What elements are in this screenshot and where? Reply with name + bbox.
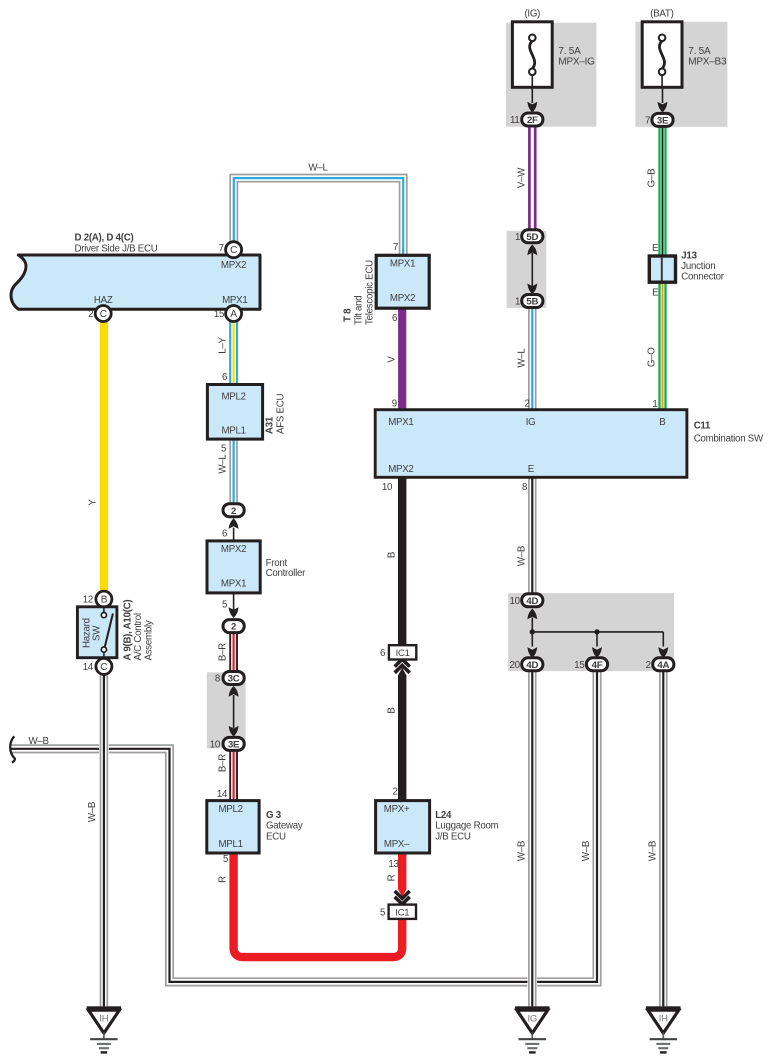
- svg-text:2: 2: [231, 506, 236, 517]
- svg-text:SW: SW: [91, 625, 102, 641]
- svg-text:(BAT): (BAT): [650, 8, 673, 19]
- svg-text:Telescopic ECU: Telescopic ECU: [365, 260, 376, 325]
- gray background area - MPX-B3 fuse block: [635, 22, 727, 127]
- svg-text:2: 2: [646, 660, 651, 671]
- pin circle A on J/B ECU bottom pin 15: [226, 306, 242, 322]
- svg-text:14: 14: [83, 662, 94, 673]
- stub to 4A arrow: [662, 632, 664, 647]
- svg-text:IG: IG: [526, 417, 536, 428]
- svg-text:Controller: Controller: [266, 568, 307, 579]
- line from fuse MPX-B3 to connector 3E: [662, 87, 664, 103]
- wire B from IC1 chevrons to L24 MPX+ pin 2: [398, 675, 406, 800]
- connector 3E pin 7: [652, 113, 673, 126]
- fuse 7.5A MPX-IG: [512, 22, 552, 88]
- arrow into connector 3E: [658, 102, 668, 113]
- svg-text:J13: J13: [681, 251, 697, 262]
- svg-text:A/C Control: A/C Control: [133, 613, 144, 660]
- svg-text:MPX2: MPX2: [390, 293, 415, 304]
- svg-text:B: B: [386, 707, 397, 713]
- connector 5B pin 1: [522, 295, 543, 308]
- connector 2 between Front Controller and 3C: [223, 620, 244, 633]
- chevrons into IC1 pin 6: [395, 659, 410, 673]
- connector 4D pin 10: [522, 594, 543, 607]
- svg-text:9: 9: [392, 398, 397, 409]
- svg-text:2: 2: [88, 309, 93, 320]
- svg-text:5: 5: [221, 444, 226, 455]
- svg-text:MPX+: MPX+: [384, 804, 410, 815]
- pin circle C on J/B ECU top pin 7: [226, 242, 242, 258]
- ECU G3 Gateway ECU box: [207, 801, 259, 853]
- svg-text:3E: 3E: [228, 740, 240, 751]
- svg-text:2F: 2F: [527, 115, 538, 126]
- svg-text:2: 2: [392, 787, 397, 798]
- arrow down into 5B: [527, 284, 537, 295]
- connector 2F pin 11: [522, 113, 543, 126]
- svg-text:D 2(A), D 4(C): D 2(A), D 4(C): [75, 232, 134, 243]
- svg-text:C: C: [230, 245, 237, 256]
- junction connector J13 box: [649, 256, 675, 282]
- wire V from Tilt ECU pin 6 to Combination SW pin 9: [398, 308, 406, 410]
- svg-text:IC1: IC1: [396, 648, 410, 659]
- svg-text:R: R: [386, 874, 397, 881]
- svg-text:Tilt and: Tilt and: [354, 296, 365, 325]
- svg-text:A: A: [230, 309, 237, 320]
- wire W-B from Combination SW pin 8 to connector 4D: [527, 477, 537, 594]
- wire W-B from connector 4F down, left and up to left edge off-page: [10, 671, 601, 986]
- arrow up into 5D: [527, 245, 537, 256]
- pin circle C on Hazard SW pin 14: [96, 658, 112, 674]
- wire W-L from connector 5B to Combination SW pin 2: [527, 308, 537, 410]
- svg-text:1: 1: [515, 232, 520, 243]
- svg-text:MPX1: MPX1: [222, 295, 247, 306]
- off-page continuation squiggle at left edge: [10, 736, 15, 762]
- arrow down into connector 2 lower: [229, 607, 239, 618]
- svg-text:B: B: [659, 417, 665, 428]
- svg-text:20: 20: [510, 660, 521, 671]
- ground IG center: [515, 1006, 549, 1052]
- arrow up into 3C: [229, 686, 239, 697]
- fuse rating label 7.5A MPX-IG: [558, 46, 595, 67]
- gray background area - MPX-IG fuse block: [506, 23, 596, 127]
- svg-text:(IG): (IG): [524, 8, 540, 19]
- wire R arrowhead tip above IC1: [398, 889, 407, 897]
- line from fuse MPX-IG to connector 2F: [531, 87, 533, 103]
- svg-text:15: 15: [214, 309, 224, 320]
- gray background area - 5D/5B in-line connector: [507, 231, 547, 308]
- connector 4D pin 20: [522, 658, 543, 671]
- line from arrow down to junction: [531, 618, 533, 632]
- svg-text:W–B: W–B: [516, 546, 527, 566]
- svg-text:14: 14: [217, 789, 228, 800]
- svg-text:C: C: [100, 662, 107, 673]
- connector 4F pin 15: [586, 658, 607, 671]
- svg-text:4D: 4D: [526, 596, 538, 607]
- svg-text:3E: 3E: [657, 116, 669, 127]
- junction line across 4D 4F 4A: [532, 631, 663, 633]
- pin circle B on Hazard SW pin 12: [96, 591, 112, 607]
- fuse 7.5A MPX-B3: [642, 22, 682, 88]
- junction dot at 4F branch: [594, 629, 599, 634]
- svg-text:2: 2: [524, 398, 529, 409]
- svg-text:Connector: Connector: [681, 272, 724, 283]
- svg-text:1: 1: [652, 399, 657, 410]
- svg-text:MPX–B3: MPX–B3: [688, 56, 727, 67]
- svg-text:6: 6: [222, 528, 227, 539]
- ECU T8 Tilt and Telescopic ECU box: [376, 255, 429, 308]
- connector 5D pin 1: [522, 230, 543, 243]
- svg-text:5D: 5D: [526, 232, 538, 243]
- svg-text:W–B: W–B: [87, 802, 98, 822]
- svg-text:MPX1: MPX1: [388, 417, 413, 428]
- svg-text:B–R: B–R: [218, 754, 229, 772]
- svg-text:G–B: G–B: [647, 169, 658, 188]
- svg-text:A 9(B), A10(C): A 9(B), A10(C): [122, 600, 133, 661]
- svg-text:7. 5A: 7. 5A: [558, 46, 581, 57]
- ECU L24 Luggage Room J/B ECU box: [376, 801, 430, 853]
- wire B-R from junction 3E to Gateway ECU pin 14: [229, 750, 239, 801]
- svg-text:Driver Side J/B ECU: Driver Side J/B ECU: [75, 244, 158, 255]
- svg-text:E: E: [652, 243, 659, 254]
- svg-text:IH: IH: [659, 1014, 668, 1025]
- svg-text:W–B: W–B: [647, 841, 658, 861]
- svg-text:6: 6: [222, 372, 227, 383]
- svg-text:MPL2: MPL2: [218, 804, 242, 815]
- junction dot at 4D branch: [530, 629, 535, 634]
- svg-text:10: 10: [510, 596, 521, 607]
- svg-text:6: 6: [380, 648, 385, 659]
- arrow into connector 2F: [527, 102, 537, 113]
- svg-text:3C: 3C: [228, 674, 240, 685]
- arrow down into 4F: [592, 647, 602, 658]
- svg-text:W–L: W–L: [218, 454, 229, 474]
- chevrons into IC1 pin 5: [395, 891, 410, 904]
- svg-text:MPX2: MPX2: [388, 464, 413, 475]
- svg-text:E: E: [652, 288, 659, 299]
- svg-text:V: V: [386, 356, 397, 363]
- svg-text:MPL1: MPL1: [221, 426, 245, 437]
- svg-text:5B: 5B: [526, 297, 538, 308]
- wire L-Y from J/B ECU pin 15 to AFS ECU pin 6: [229, 319, 239, 385]
- svg-text:IG: IG: [528, 1014, 538, 1025]
- svg-text:L24: L24: [435, 810, 452, 821]
- svg-text:W–B: W–B: [581, 841, 592, 861]
- svg-text:C: C: [100, 309, 107, 320]
- svg-text:8: 8: [522, 482, 527, 493]
- svg-text:Combination SW: Combination SW: [694, 433, 764, 444]
- arrow down into 3E: [229, 726, 239, 737]
- connector 2 between AFS ECU and Front Controller: [223, 504, 244, 517]
- svg-text:B–R: B–R: [218, 643, 229, 661]
- wire B from Combination SW pin 10 to IC1 pin 6: [398, 477, 406, 645]
- stub to 4D arrow: [531, 632, 533, 647]
- wire W-B from connector 4D to ground IG: [527, 671, 537, 1007]
- svg-text:MPX2: MPX2: [221, 260, 246, 271]
- svg-text:IH: IH: [99, 1014, 108, 1025]
- svg-text:MPX1: MPX1: [390, 259, 415, 270]
- hazard switch contacts and blade: [101, 607, 113, 658]
- wire R from L24 MPX- pin 13 down to IC1 chevrons: [398, 853, 406, 889]
- svg-text:V–W: V–W: [516, 167, 527, 188]
- wire W-B from Hazard SW pin 14 to ground IH: [99, 675, 109, 1006]
- ECU C11 Combination SW box: [375, 410, 687, 478]
- svg-text:J/B ECU: J/B ECU: [435, 832, 471, 843]
- ECU D2/D4 Driver Side J/B ECU box: [11, 255, 260, 309]
- line from arrow to Front Controller pin 6: [233, 528, 235, 542]
- svg-text:5: 5: [380, 907, 385, 918]
- wire W-L from Driver Side J/B ECU pin 7 to Tilt ECU pin 7: [229, 174, 408, 256]
- svg-text:B: B: [101, 595, 108, 606]
- svg-text:Luggage Room: Luggage Room: [435, 821, 498, 832]
- line from Front Controller pin 5 to arrow: [233, 593, 235, 610]
- wire B-R from connector 2 to junction 3C: [229, 632, 239, 672]
- svg-text:W–L: W–L: [516, 348, 527, 368]
- ground IH right: [646, 1006, 680, 1052]
- svg-text:7: 7: [219, 243, 224, 254]
- svg-text:A31: A31: [264, 416, 275, 434]
- stub to 4F arrow: [596, 632, 598, 647]
- svg-text:7. 5A: 7. 5A: [688, 46, 711, 57]
- gray background area - 3C/3E in-line connector: [207, 672, 246, 748]
- arrow down into 4D lower: [527, 647, 537, 658]
- gray background area - 4D/4F/4A connector block: [508, 593, 674, 671]
- svg-text:Assembly: Assembly: [143, 620, 154, 660]
- wire Y from J/B ECU HAZ pin 2 to Hazard SW pin 12: [100, 321, 108, 592]
- svg-text:7: 7: [645, 116, 650, 127]
- svg-text:MPX–IG: MPX–IG: [558, 56, 595, 67]
- svg-text:8: 8: [215, 674, 220, 685]
- wire G-O from J13 junction connector to Combination SW pin 1: [658, 282, 668, 410]
- svg-text:4D: 4D: [526, 660, 538, 671]
- svg-text:2: 2: [231, 622, 236, 633]
- svg-text:E: E: [528, 464, 535, 475]
- svg-text:G 3: G 3: [266, 810, 282, 821]
- fuse rating label 7.5A MPX-B3: [688, 46, 727, 67]
- svg-text:Junction: Junction: [681, 261, 715, 272]
- svg-text:MPL1: MPL1: [218, 839, 242, 850]
- svg-text:T 8: T 8: [343, 308, 354, 322]
- svg-text:10: 10: [382, 482, 393, 493]
- connector 3C pin 8: [223, 672, 244, 685]
- svg-text:IC1: IC1: [395, 908, 409, 919]
- ECU Front Controller box: [207, 541, 260, 593]
- svg-text:ECU: ECU: [266, 832, 286, 843]
- svg-text:15: 15: [574, 660, 584, 671]
- svg-text:W–B: W–B: [516, 841, 527, 861]
- svg-text:4A: 4A: [657, 660, 669, 671]
- wire G-B from fuse connector 3E to J13 junction connector: [658, 126, 668, 256]
- arrow up into 4D: [527, 609, 537, 620]
- wire W-L from AFS ECU pin 5 to connector 2: [229, 439, 239, 504]
- svg-text:5: 5: [222, 599, 227, 610]
- svg-text:4F: 4F: [592, 660, 603, 671]
- svg-text:MPX–: MPX–: [384, 839, 410, 850]
- svg-text:C11: C11: [694, 421, 711, 432]
- svg-text:R: R: [218, 876, 229, 883]
- connector 3E pin 10: [223, 737, 244, 750]
- line between 5D and 5B arrows: [531, 253, 533, 286]
- wire V-W from fuse connector 2F to connector 5D: [528, 126, 537, 230]
- svg-text:W–L: W–L: [308, 163, 328, 174]
- connector IC1 pin 6 on wire B: [389, 645, 416, 659]
- svg-text:13: 13: [388, 859, 398, 870]
- svg-text:MPX1: MPX1: [221, 579, 246, 590]
- switch Hazard SW box: [77, 607, 117, 658]
- svg-text:MPX2: MPX2: [221, 544, 246, 555]
- svg-text:B: B: [386, 552, 397, 558]
- wire B arrowhead tip below IC1: [398, 668, 407, 676]
- svg-text:10: 10: [210, 740, 221, 751]
- svg-text:11: 11: [510, 115, 520, 126]
- wire W-B from connector 4A to ground IH right: [658, 671, 668, 1007]
- svg-text:G–O: G–O: [647, 347, 658, 367]
- wire R from Gateway ECU pin 5 to IC1 pin 5 of L24: [234, 853, 403, 957]
- svg-text:MPL2: MPL2: [221, 392, 245, 403]
- svg-text:5: 5: [223, 854, 228, 865]
- svg-text:AFS ECU: AFS ECU: [275, 394, 286, 434]
- arrow up into connector 2: [229, 518, 239, 529]
- line between 3C and 3E arrows: [233, 695, 235, 728]
- ECU A31 AFS ECU box: [207, 385, 262, 440]
- svg-text:12: 12: [83, 595, 93, 606]
- arrow down into 4A: [658, 647, 668, 658]
- pin circle C on J/B ECU bottom pin 2: [95, 306, 111, 322]
- svg-text:Gateway: Gateway: [266, 821, 303, 832]
- svg-text:Y: Y: [88, 499, 99, 506]
- svg-text:L–Y: L–Y: [218, 336, 229, 353]
- svg-text:6: 6: [392, 313, 397, 324]
- ground IH left: [87, 1006, 121, 1052]
- svg-text:W–B: W–B: [29, 736, 49, 747]
- svg-text:1: 1: [515, 297, 520, 308]
- svg-text:7: 7: [393, 242, 398, 253]
- connector IC1 pin 5 on wire R: [389, 905, 416, 919]
- connector 4A pin 2: [653, 658, 674, 671]
